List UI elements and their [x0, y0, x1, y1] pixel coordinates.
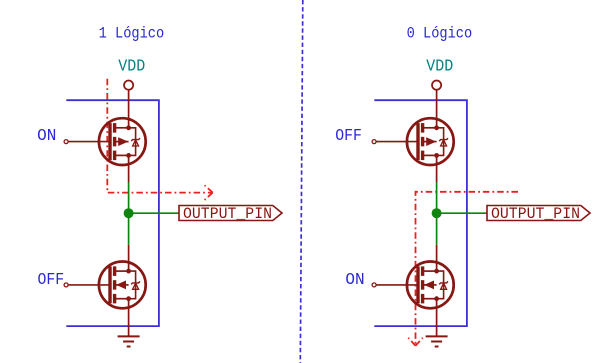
svg-text:OFF: OFF — [38, 271, 65, 290]
svg-text:ON: ON — [345, 271, 364, 290]
svg-text:1 Lógico: 1 Lógico — [99, 24, 165, 42]
svg-text:ON: ON — [37, 127, 56, 146]
svg-text:OFF: OFF — [335, 127, 362, 146]
svg-text:0 Lógico: 0 Lógico — [407, 24, 473, 42]
